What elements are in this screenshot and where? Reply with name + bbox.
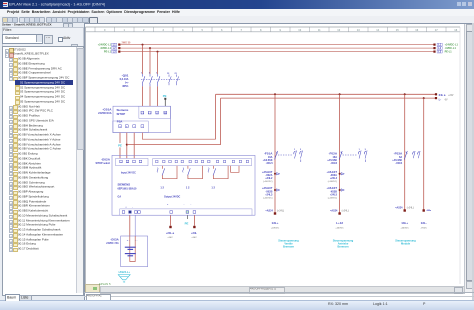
G2 output terminal strip	[153, 158, 252, 165]
node bus tap -F02A	[339, 93, 341, 95]
wire rail L1 +24V distribution	[98, 43, 459, 47]
svg-text:Module: Module	[401, 241, 411, 245]
svg-text:1: 1	[359, 149, 361, 151]
G1 input terminals L1 L2 L3 PE	[141, 111, 167, 115]
PE stub below G2	[185, 215, 189, 225]
wire rail L2 +24V distribution	[100, 47, 457, 51]
svg-text:21: 21	[175, 73, 178, 75]
svg-text:24VDC/10A: 24VDC/10A	[98, 112, 112, 115]
wire end +24L.a	[166, 215, 175, 239]
svg-text:-X01/4: -X01/4	[395, 162, 402, 165]
svg-text:+24L5: +24L5	[330, 193, 338, 196]
svg-text:12: 12	[337, 28, 340, 32]
svg-text:GA: GA	[118, 195, 122, 198]
svg-text:SITOP select: SITOP select	[95, 162, 110, 165]
svg-text:24L a: 24L a	[439, 93, 446, 97]
svg-text:(+24L): (+24L)	[342, 210, 349, 213]
svg-text:-0Ma: -0Ma	[426, 210, 432, 212]
svg-text:+24V: +24V	[191, 236, 197, 239]
G2 type labels	[118, 182, 138, 198]
svg-text:-0V: -0V	[444, 99, 448, 101]
svg-text:16A: 16A	[333, 156, 338, 159]
wire G2 to battery module -	[134, 215, 136, 236]
node bus tap -F01A	[274, 93, 276, 95]
svg-text:+24L: +24L	[191, 231, 197, 235]
G2 jumper loop	[231, 166, 239, 173]
svg-text:SITOP: SITOP	[117, 112, 126, 116]
svg-text:2: 2	[143, 28, 145, 32]
svg-text:3: 3	[300, 149, 302, 151]
wire rail L3 +24V distribution	[104, 50, 452, 54]
svg-text:PE: PE	[163, 94, 167, 98]
svg-text:16A: 16A	[268, 156, 273, 159]
node L3 tap / wire drop	[157, 51, 159, 74]
svg-text:PE-L1: PE-L1	[104, 51, 112, 54]
svg-text:1: 1	[123, 28, 125, 32]
svg-text:(+24L): (+24L)	[277, 210, 284, 213]
device tag G3 label	[106, 238, 119, 245]
svg-text:1 2: 1 2	[160, 186, 164, 190]
power supply unit G1 SITOP	[113, 106, 171, 132]
svg-text:17: 17	[435, 28, 438, 32]
svg-text:+24L.a: +24L.a	[166, 231, 175, 235]
wire end node 13L+	[395, 207, 414, 230]
svg-text:15: 15	[396, 28, 399, 32]
bus riser 0V	[220, 98, 222, 145]
svg-text:14: 14	[376, 28, 379, 32]
bus 0V horizontal	[221, 97, 448, 101]
svg-text:3: 3	[365, 149, 367, 151]
svg-text:8: 8	[260, 28, 262, 32]
svg-text:+: +	[125, 206, 127, 208]
svg-text:4: 4	[182, 28, 184, 32]
G2 bottom terminal strip	[120, 209, 252, 215]
circuit breaker Q01 (3-pole motor protection)	[120, 72, 181, 88]
auxiliary contacts of Q01	[167, 73, 179, 85]
svg-text:16: 16	[415, 28, 418, 32]
wire G2 to battery module +	[129, 215, 131, 236]
node bus tap 0V branch	[423, 97, 425, 99]
svg-text:-: -	[184, 204, 185, 206]
svg-text:6EP1961-3BA10: 6EP1961-3BA10	[118, 187, 138, 190]
page frame top border	[86, 27, 461, 284]
PE wire into G1	[163, 94, 167, 106]
svg-text:(+24VDC): (+24VDC)	[263, 180, 273, 183]
svg-text:13L+: 13L+	[401, 221, 408, 225]
svg-text:3: 3	[162, 28, 164, 32]
node bus tap -F03A	[404, 93, 406, 95]
wire branch -F02A	[339, 94, 341, 213]
svg-text:PE: PE	[185, 221, 189, 225]
wire G1 output to bus riser	[142, 133, 215, 140]
bus +24V horizontal	[216, 93, 454, 97]
auxiliary contact of -F01A	[278, 149, 303, 162]
svg-text:Input 24V DC: Input 24V DC	[121, 171, 136, 174]
svg-text:(+24VDC): (+24VDC)	[263, 196, 273, 199]
svg-text:Bremsen: Bremsen	[283, 244, 295, 248]
interruption point -X02B	[262, 187, 280, 199]
svg-text:+ -: + -	[127, 240, 130, 242]
svg-text:3RV1: 3RV1	[122, 85, 129, 88]
svg-text:=AS24: =AS24	[265, 210, 273, 213]
svg-text:+24L3: +24L3	[265, 193, 273, 196]
G2 electronic switch 1	[157, 166, 177, 179]
svg-text:18: 18	[454, 28, 457, 32]
svg-text:2WG 30: 2WG 30	[122, 42, 131, 45]
svg-text:6A: 6A	[399, 156, 402, 159]
svg-text:(+24VDC): (+24VDC)	[328, 196, 338, 199]
device tag G1 label	[98, 108, 112, 116]
G3 internal battery wiring	[130, 236, 135, 262]
svg-text:+24L4: +24L4	[330, 177, 338, 180]
svg-text:=AS24-L+: =AS24-L+	[118, 270, 130, 274]
svg-text:(+24L): (+24L)	[407, 207, 414, 210]
svg-text:13L+: 13L+	[272, 221, 279, 225]
PE wire G1 to G2	[117, 133, 122, 159]
svg-text:+AS.SSK: +AS.SSK	[263, 159, 273, 162]
wire Q01 to G1 L3	[157, 86, 159, 106]
circuit breaker -F02A	[327, 151, 342, 165]
svg-text:1 2: 1 2	[211, 186, 215, 190]
bus riser +24V	[215, 94, 217, 139]
svg-text:PSA: PSA	[117, 119, 123, 123]
svg-text:-: -	[132, 206, 133, 208]
svg-text:10: 10	[298, 28, 301, 32]
svg-text:-X01/4: -X01/4	[330, 162, 337, 165]
wire end node L+12	[330, 210, 349, 230]
G2 bottom terminal marks	[125, 204, 191, 208]
svg-text:+AS.SSK: +AS.SSK	[327, 159, 337, 162]
svg-text:1: 1	[149, 72, 151, 74]
G2 input terminal strip	[116, 158, 148, 165]
svg-text:1: 1	[156, 72, 158, 74]
circuit breaker -F03A	[392, 151, 407, 165]
wire end +24L	[191, 215, 197, 239]
auxiliary contact of -F03A	[413, 151, 420, 158]
svg-text:-: -	[191, 204, 192, 206]
destination note text	[278, 238, 299, 248]
svg-text:1: 1	[141, 72, 143, 74]
svg-text:0: 0	[104, 28, 106, 32]
diagnostics module G2 outline	[112, 155, 255, 215]
svg-text:13: 13	[357, 28, 360, 32]
G3 terminal marks	[127, 240, 138, 242]
G2 electronic switch 3	[208, 166, 228, 179]
svg-text:=AS24: =AS24	[395, 207, 403, 210]
svg-text:+AS.SSK: +AS.SSK	[392, 159, 402, 162]
interruption point -X03A	[327, 171, 345, 183]
svg-text:9: 9	[279, 28, 281, 32]
svg-text:L+12: L+12	[336, 221, 343, 225]
svg-text:Bremsen: Bremsen	[337, 244, 349, 248]
svg-text:-X01/4: -X01/4	[266, 162, 273, 165]
svg-text:+24VDC: +24VDC	[401, 227, 410, 230]
svg-text:+24V: +24V	[448, 94, 454, 97]
svg-text:12: 12	[123, 282, 126, 284]
interruption point -X02A	[262, 171, 280, 183]
svg-text:-G01A: -G01A	[102, 108, 112, 112]
battery symbol G3	[125, 247, 136, 256]
svg-text:SIEMENS: SIEMENS	[118, 182, 131, 186]
svg-text:(+24VDC): (+24VDC)	[328, 180, 338, 183]
svg-text:13: 13	[167, 73, 170, 75]
svg-text:-G03A: -G03A	[110, 238, 119, 242]
G2 electronic switch 2	[183, 166, 203, 179]
svg-text:-0VDC: -0VDC	[420, 228, 427, 230]
interruption point arrow bottom left	[118, 270, 130, 284]
svg-text:+24VDC: +24VDC	[335, 227, 344, 230]
destination note text	[395, 238, 416, 245]
auxiliary contact of -F02A	[343, 149, 368, 162]
svg-text:PE: PE	[118, 144, 122, 148]
svg-text:+24VDC: +24VDC	[271, 227, 280, 230]
wire branch -F01A	[274, 94, 276, 213]
svg-text:6: 6	[221, 28, 223, 32]
svg-text:13L-: 13L-	[421, 221, 427, 225]
wire +24V G1 to G2 with branch to bus	[126, 133, 221, 159]
svg-text:1 2: 1 2	[186, 186, 190, 190]
node L1 tap / wire drop	[142, 44, 144, 74]
wire Q01 to G1 L1	[142, 86, 144, 106]
circuit breaker -F01A	[263, 151, 278, 165]
wire Q01 to G1 L2	[149, 86, 151, 106]
svg-text:5: 5	[201, 28, 203, 32]
svg-text:L-: L-	[439, 97, 442, 101]
wire 0V G1 to G2	[133, 133, 135, 159]
node L2 tap / wire drop	[149, 47, 151, 74]
svg-text:-Q01: -Q01	[122, 74, 129, 78]
svg-text:+: +	[167, 204, 169, 206]
svg-text:11: 11	[318, 28, 321, 32]
destination note text	[333, 238, 354, 248]
svg-text:24VDC 7Ah: 24VDC 7Ah	[106, 242, 119, 245]
svg-text:7: 7	[240, 28, 242, 32]
svg-text:L3: L3	[113, 51, 116, 54]
wire end node 13L-	[420, 209, 431, 229]
G1 output terminals + + - -	[119, 125, 144, 129]
svg-text:Output 24VDC: Output 24VDC	[164, 195, 180, 198]
svg-text:PE-L1: PE-L1	[445, 51, 453, 54]
wire end node 13L+	[265, 210, 284, 230]
svg-text:+24V: +24V	[167, 236, 173, 239]
svg-text:L3: L3	[438, 51, 441, 54]
svg-text:1: 1	[294, 149, 296, 151]
wire branch -F03A	[404, 94, 406, 210]
wire 0V branch	[423, 98, 425, 210]
device tag G2 label	[95, 158, 110, 165]
battery module G3 outline	[121, 236, 148, 267]
interruption point -X03B	[327, 187, 345, 199]
svg-text:=AS24: =AS24	[330, 210, 338, 213]
svg-text:+24L2: +24L2	[265, 177, 273, 180]
